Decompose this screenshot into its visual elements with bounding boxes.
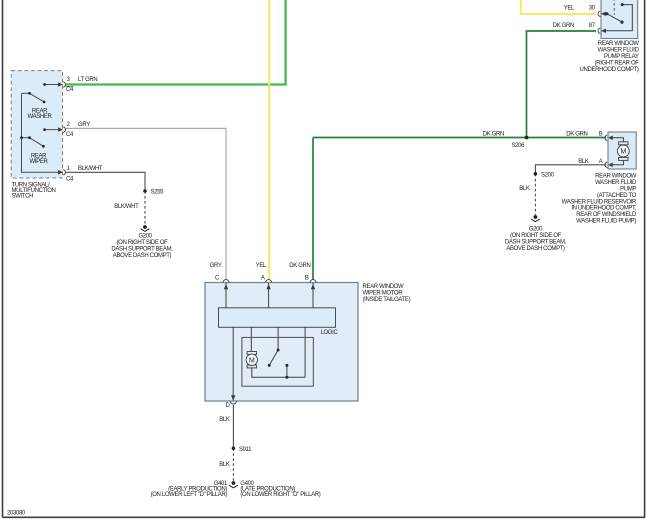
svg-text:S911: S911 — [239, 447, 252, 453]
svg-text:3: 3 — [67, 77, 71, 83]
svg-text:B: B — [599, 132, 603, 138]
svg-text:S255: S255 — [151, 190, 165, 196]
svg-text:WASHER FLUID RESERVOIR: WASHER FLUID RESERVOIR — [562, 199, 637, 205]
svg-text:87: 87 — [589, 23, 596, 29]
svg-text:DK GRN: DK GRN — [289, 263, 310, 269]
svg-text:1: 1 — [67, 166, 71, 172]
svg-text:BLK: BLK — [578, 159, 589, 165]
svg-text:DASH SUPPORT BEAM,: DASH SUPPORT BEAM, — [505, 239, 567, 245]
svg-text:D: D — [226, 403, 231, 409]
svg-text:G200: G200 — [138, 233, 152, 239]
svg-text:(ON RIGHT SIDE OF: (ON RIGHT SIDE OF — [510, 233, 562, 239]
svg-text:DASH SUPPORT BEAM,: DASH SUPPORT BEAM, — [111, 246, 173, 252]
svg-text:REAR WINDOW: REAR WINDOW — [595, 174, 637, 180]
svg-text:BLK: BLK — [219, 462, 230, 468]
svg-text:A: A — [261, 275, 265, 281]
svg-text:C: C — [215, 275, 220, 281]
svg-text:ABOVE DASH COMPT): ABOVE DASH COMPT) — [506, 246, 565, 252]
svg-text:REAR WINDOW: REAR WINDOW — [598, 41, 640, 47]
svg-text:BLK: BLK — [519, 186, 530, 192]
svg-text:30: 30 — [589, 6, 596, 12]
svg-text:S206: S206 — [512, 143, 526, 149]
svg-text:(ATTACHED TO: (ATTACHED TO — [597, 193, 637, 199]
svg-text:M: M — [249, 357, 255, 364]
svg-text:(ON RIGHT SIDE OF: (ON RIGHT SIDE OF — [117, 240, 169, 246]
svg-text:2: 2 — [67, 122, 71, 128]
svg-text:203080: 203080 — [7, 510, 26, 516]
svg-text:DK GRN: DK GRN — [483, 132, 504, 138]
svg-text:BLK: BLK — [219, 417, 230, 423]
svg-text:DK GRN: DK GRN — [566, 132, 587, 138]
svg-text:WASHER FLUID: WASHER FLUID — [598, 48, 640, 54]
svg-text:B: B — [305, 275, 309, 281]
svg-text:C4: C4 — [66, 87, 74, 93]
svg-text:GRY: GRY — [210, 263, 222, 269]
svg-text:A: A — [599, 159, 603, 165]
svg-text:PUMP: PUMP — [620, 187, 636, 193]
svg-text:PUMP RELAY: PUMP RELAY — [604, 54, 639, 60]
svg-text:REAR OF WINDSHIELD: REAR OF WINDSHIELD — [576, 212, 637, 218]
svg-text:WIPER: WIPER — [30, 159, 49, 165]
svg-text:DK GRN: DK GRN — [553, 23, 574, 29]
svg-text:WASHER FLUID PUMP): WASHER FLUID PUMP) — [576, 219, 636, 225]
svg-text:ABOVE DASH COMPT): ABOVE DASH COMPT) — [113, 253, 172, 259]
svg-text:C4: C4 — [66, 177, 74, 183]
svg-text:BLK/WHT: BLK/WHT — [78, 166, 103, 172]
svg-text:SWITCH: SWITCH — [12, 193, 34, 199]
svg-text:GRY: GRY — [78, 122, 90, 128]
svg-text:YEL: YEL — [256, 263, 267, 269]
svg-text:G200: G200 — [529, 226, 543, 232]
svg-text:(RIGHT REAR OF: (RIGHT REAR OF — [595, 61, 640, 67]
svg-text:WIPER MOTOR: WIPER MOTOR — [363, 291, 404, 297]
svg-text:LT GRN: LT GRN — [78, 77, 97, 83]
svg-text:(INSIDE TAILGATE): (INSIDE TAILGATE) — [363, 297, 411, 303]
svg-text:UNDERHOOD COMPT): UNDERHOOD COMPT) — [580, 67, 639, 73]
svg-text:(ON LOWER LEFT "D" PILLAR): (ON LOWER LEFT "D" PILLAR) — [151, 492, 228, 498]
svg-text:S200: S200 — [541, 172, 555, 178]
svg-text:(ON LOWER RIGHT "D" PILLAR): (ON LOWER RIGHT "D" PILLAR) — [240, 492, 320, 498]
svg-text:BLK/WHT: BLK/WHT — [114, 204, 139, 210]
svg-text:WASHER FLUID: WASHER FLUID — [595, 180, 637, 186]
svg-text:REAR WINDOW: REAR WINDOW — [363, 284, 405, 290]
svg-text:WASHER: WASHER — [27, 114, 52, 120]
svg-text:LOGIC: LOGIC — [321, 330, 339, 336]
svg-text:IN UNDERHOOD COMPT,: IN UNDERHOOD COMPT, — [571, 206, 636, 212]
svg-text:YEL: YEL — [564, 6, 575, 12]
svg-text:M: M — [621, 149, 627, 156]
svg-text:C4: C4 — [66, 132, 74, 138]
